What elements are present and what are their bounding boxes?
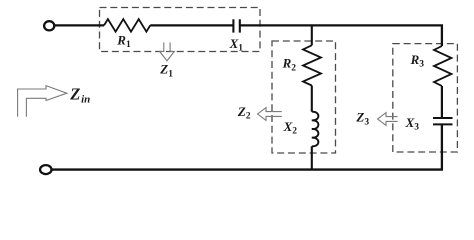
wire: X3 down to bottom-right corner [441,124,443,169]
wire: top terminal to R1 [54,24,104,26]
wire: middle branch, top wire down to R2 [311,25,313,45]
capacitor X1 [233,19,239,32]
resistor R2 [303,45,321,85]
inductor X2 [312,112,319,147]
svg-text:Z3: Z3 [355,110,369,128]
wire: R3 to X3 [441,86,443,118]
resistor R3 [434,46,452,86]
svg-text:R2: R2 [282,56,297,74]
arrow Zin (bent input-impedance arrow, points right) [18,86,67,117]
dashed box Z2 (series R2-X2 impedance boundary) [272,41,336,153]
wire: X1 to top-right corner and down to R3 [240,25,442,46]
resistor R1 [104,19,150,32]
wire: R2 to X2 [311,86,313,112]
svg-text:Z2: Z2 [237,104,251,122]
dashed box Z1 (series R1-X1 impedance boundary) [100,8,261,52]
svg-text:X3: X3 [405,115,420,133]
dashed box Z3 (series R3-X3 impedance boundary) [393,44,458,152]
wire: bottom rail (bottom terminal to bottom-right corner) [51,168,443,170]
svg-text:Zin: Zin [69,85,90,106]
svg-text:Z1: Z1 [159,62,173,80]
terminal (input, bottom-left) [40,165,51,174]
wire: R1 to X1 [150,24,233,26]
svg-text:X1: X1 [229,36,244,54]
svg-text:R3: R3 [410,52,425,70]
wire: X2 down to bottom rail [311,146,313,170]
svg-text:X2: X2 [283,119,298,137]
arrow Z2 (points left into middle branch) [258,108,282,121]
terminal (input, top-left) [44,21,54,30]
arrow Z1 (impedance looking into series branch, points down) [160,42,175,60]
svg-text:R1: R1 [116,32,131,50]
arrow Z3 (points left into right branch) [378,113,398,126]
capacitor X3 [433,118,453,124]
